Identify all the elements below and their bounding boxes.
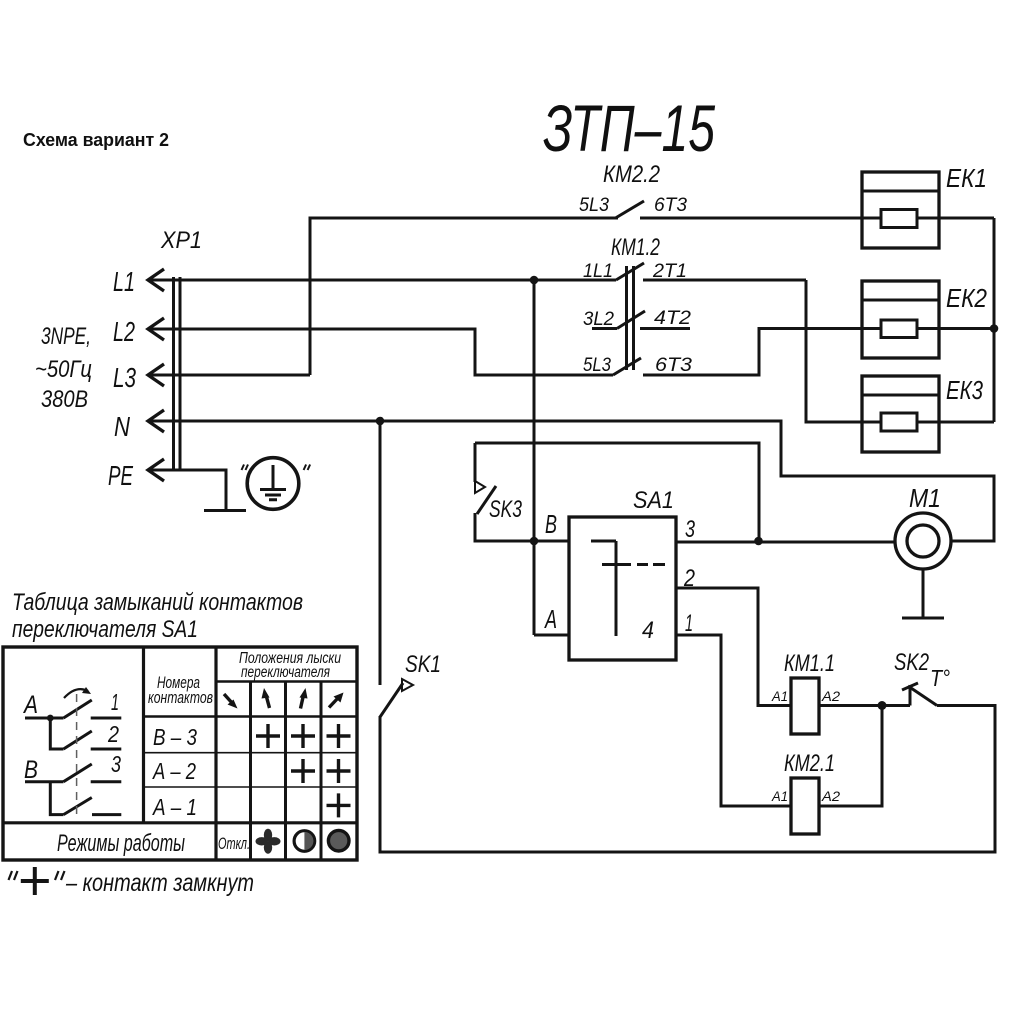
diagram terminal 1 xyxy=(91,717,122,720)
connector XP1 arrow L1 xyxy=(148,269,164,291)
heater EK3 element xyxy=(881,413,917,431)
contact KM1.2 pole2 blade xyxy=(617,311,645,329)
contact SK2 blade xyxy=(908,686,937,706)
svg-text:SK2: SK2 xyxy=(894,649,929,676)
connector XP1 bars xyxy=(172,277,175,470)
svg-text:4: 4 xyxy=(642,617,654,644)
switch SK1 actuator triangle xyxy=(402,679,413,691)
position arrow 4 xyxy=(329,698,338,708)
table divider v2 xyxy=(214,647,217,860)
svg-text:1: 1 xyxy=(111,689,119,715)
diagram terminal 3 xyxy=(91,780,122,783)
svg-text:КМ1.1: КМ1.1 xyxy=(784,650,835,677)
svg-text:4Т2: 4Т2 xyxy=(654,308,691,329)
switch SA1 box xyxy=(569,517,676,660)
table outer frame xyxy=(3,647,357,860)
motor M1 ground bar xyxy=(902,617,944,620)
svg-text:5L3: 5L3 xyxy=(583,355,611,376)
position arrow 2 xyxy=(266,695,270,708)
svg-text:ЗТП–15: ЗТП–15 xyxy=(543,91,715,165)
contact KM1.2 pole1 blade xyxy=(616,263,644,280)
wire L1 vertical to SA1 xyxy=(533,280,536,635)
svg-text:В – 3: В – 3 xyxy=(153,724,197,750)
diagram blade 4 xyxy=(64,798,92,815)
svg-text:SA1: SA1 xyxy=(633,487,674,514)
svg-text:переключателя SA1: переключателя SA1 xyxy=(12,616,198,643)
connector XP1 arrow L3 xyxy=(148,364,164,386)
table row line B3 xyxy=(144,752,358,754)
wire SK3 loop top xyxy=(475,443,759,541)
svg-text:Режимы работы: Режимы работы xyxy=(57,830,185,857)
svg-text:контактов: контактов xyxy=(148,689,213,707)
svg-text:А2: А2 xyxy=(821,688,840,704)
svg-text:2: 2 xyxy=(107,721,119,747)
svg-text:А1: А1 xyxy=(771,788,788,804)
node EK2 bus junction xyxy=(990,324,999,333)
table divider v4 xyxy=(284,682,287,861)
wire KM2.2 to EK1 xyxy=(640,217,994,220)
wire 6T3 to EK2 xyxy=(643,329,994,376)
node pin3 junction xyxy=(754,537,763,546)
switch SK3 top terminal xyxy=(474,443,477,482)
table row line A2 xyxy=(144,786,358,788)
plus A2 c4 xyxy=(327,759,351,783)
plus A2 c3 xyxy=(291,759,315,783)
wire L3 to KM2.2 xyxy=(148,218,618,375)
mode full icon xyxy=(328,830,349,851)
svg-text:КМ2.2: КМ2.2 xyxy=(603,161,660,188)
diagram link 3-4 xyxy=(50,782,63,815)
svg-text:М1: М1 xyxy=(909,483,941,513)
mode fan icon xyxy=(256,829,281,854)
svg-text:В: В xyxy=(24,756,38,784)
wire A pin xyxy=(534,634,569,637)
diagram blade 1 xyxy=(64,700,92,718)
contact SK2 riser xyxy=(909,687,912,706)
svg-text:В: В xyxy=(545,509,557,539)
table row line arrows bottom xyxy=(144,715,358,717)
svg-text:1L1: 1L1 xyxy=(583,261,613,282)
legend quote left xyxy=(9,871,18,880)
table row line modes xyxy=(3,821,357,824)
position arrow 3 xyxy=(301,695,304,709)
svg-text:Схема вариант 2: Схема вариант 2 xyxy=(23,130,169,150)
diagram link 1-2 xyxy=(50,718,63,749)
svg-text:А: А xyxy=(22,691,38,719)
table divider v1 xyxy=(142,647,145,823)
svg-text:А2: А2 xyxy=(821,788,840,804)
diagram blade 2 xyxy=(64,731,92,749)
table header underline xyxy=(216,680,357,682)
wire pin2 to KM1.1 xyxy=(676,588,791,706)
wire EK3 right xyxy=(917,421,994,424)
motor M1 ground stem xyxy=(922,569,925,617)
diagram B wire xyxy=(25,780,64,783)
svg-text:~50Гц: ~50Гц xyxy=(35,356,92,383)
wire PE row xyxy=(148,470,226,509)
table divider v3 xyxy=(249,682,252,861)
contact KM1.2 pole2 stub left xyxy=(592,327,617,330)
plus B3 c2 xyxy=(256,724,280,748)
wire EK bus xyxy=(993,218,996,422)
earth symbol bars xyxy=(260,488,286,491)
switch SK3 blade xyxy=(477,486,496,514)
svg-text:380В: 380В xyxy=(41,386,88,413)
node KM1.1 junction xyxy=(878,701,887,710)
heater EK1 element xyxy=(881,210,917,228)
switch SK1 blade xyxy=(380,683,403,717)
ground PE bar xyxy=(204,509,246,512)
diagram blade 3 xyxy=(64,764,92,782)
wire KM coils link xyxy=(819,706,882,807)
connector XP1 arrow L2 xyxy=(148,318,164,340)
motor M1 inner xyxy=(907,525,939,557)
svg-text:ЕК3: ЕК3 xyxy=(946,375,983,405)
svg-text:3NPE,: 3NPE, xyxy=(41,323,91,350)
legend plus xyxy=(21,867,49,895)
connector XP1 arrow PE xyxy=(148,459,164,481)
svg-text:ЕК1: ЕК1 xyxy=(946,163,987,193)
svg-text:А – 2: А – 2 xyxy=(151,758,196,784)
switch SK1 top terminal xyxy=(379,421,382,685)
svg-text:А: А xyxy=(544,604,557,634)
contact KM1.2 pole3 blade xyxy=(613,358,641,375)
heater EK2 box xyxy=(862,281,939,358)
diagram terminal 2 xyxy=(91,748,122,751)
plus B3 c3 xyxy=(291,724,315,748)
svg-text:PE: PE xyxy=(108,460,133,491)
svg-text:L1: L1 xyxy=(113,266,135,297)
svg-text:1: 1 xyxy=(685,610,693,637)
plus A1 c4 xyxy=(327,793,351,817)
diagram terminal 4 xyxy=(92,813,121,816)
coil KM2.1 xyxy=(791,778,819,834)
heater EK3 box xyxy=(862,376,939,452)
mode half icon xyxy=(294,831,315,852)
legend quote right xyxy=(55,871,65,880)
svg-text:Откл.: Откл. xyxy=(218,834,250,853)
svg-text:XP1: XP1 xyxy=(160,227,202,254)
svg-text:N: N xyxy=(114,411,131,442)
svg-text:3: 3 xyxy=(111,751,121,777)
diagram A wire xyxy=(25,717,64,720)
svg-text:L2: L2 xyxy=(113,316,135,347)
diagram dashed axis xyxy=(76,694,78,816)
earth symbol stem xyxy=(272,465,275,489)
svg-text:SK1: SK1 xyxy=(405,651,441,678)
heater EK1 box xyxy=(862,172,939,248)
svg-text:А – 1: А – 1 xyxy=(151,794,197,820)
wire pin1 to KM2.1 xyxy=(676,635,791,806)
contact KM2.2 blade xyxy=(616,201,645,218)
svg-text:– контакт замкнут: – контакт замкнут xyxy=(65,869,254,897)
wire SK1 bottom to SK2 return xyxy=(380,706,995,853)
earth quote left xyxy=(242,465,249,471)
svg-text:КМ2.1: КМ2.1 xyxy=(784,750,835,777)
svg-text:А1: А1 xyxy=(771,688,788,704)
diagram rotation arc xyxy=(64,689,88,698)
svg-text:переключателя: переключателя xyxy=(241,664,330,681)
switch SA1 symbol xyxy=(591,541,665,636)
node L1 junction xyxy=(530,276,539,285)
wire SK2 left to KM1.1 xyxy=(819,704,910,707)
coil KM1.1 xyxy=(791,678,819,734)
svg-text:3L2: 3L2 xyxy=(583,309,614,330)
contact KM1.2 pole2 stub right 4T2 xyxy=(640,327,690,330)
wire L1 row xyxy=(148,279,616,282)
wire 2T1 to EK3 xyxy=(643,280,881,422)
svg-text:6Т3: 6Т3 xyxy=(655,355,692,376)
svg-text:Т°: Т° xyxy=(930,665,950,691)
svg-text:КМ1.2: КМ1.2 xyxy=(611,234,660,261)
linkage KM1.2 bars xyxy=(625,266,628,370)
svg-text:3: 3 xyxy=(685,516,695,543)
earth symbol circle xyxy=(247,458,299,510)
plus B3 c4 xyxy=(327,724,351,748)
svg-text:ЕК2: ЕК2 xyxy=(946,283,987,313)
motor M1 outer xyxy=(895,513,951,569)
svg-text:5L3: 5L3 xyxy=(579,195,609,216)
earth quote right xyxy=(304,465,311,471)
wire pin3 to M1 xyxy=(676,541,895,544)
wire L2 row xyxy=(148,329,613,375)
node N junction xyxy=(376,417,385,426)
position arrow 1 xyxy=(224,694,233,704)
wire N row xyxy=(148,421,994,541)
svg-text:Таблица замыканий контактов: Таблица замыканий контактов xyxy=(12,589,303,616)
table divider v5 xyxy=(320,682,323,861)
node B junction xyxy=(530,537,539,546)
svg-text:SK3: SK3 xyxy=(489,496,522,523)
svg-text:L3: L3 xyxy=(113,362,136,393)
diagram node A xyxy=(47,715,54,722)
heater EK2 element xyxy=(881,320,917,338)
contact SK2 thermal tick xyxy=(902,683,918,690)
svg-text:6Т3: 6Т3 xyxy=(654,195,687,216)
switch SK3 actuator triangle xyxy=(475,481,485,493)
switch SK3 bottom terminal and wire to SA1 B xyxy=(475,513,569,541)
connector XP1 arrow N xyxy=(148,410,164,432)
